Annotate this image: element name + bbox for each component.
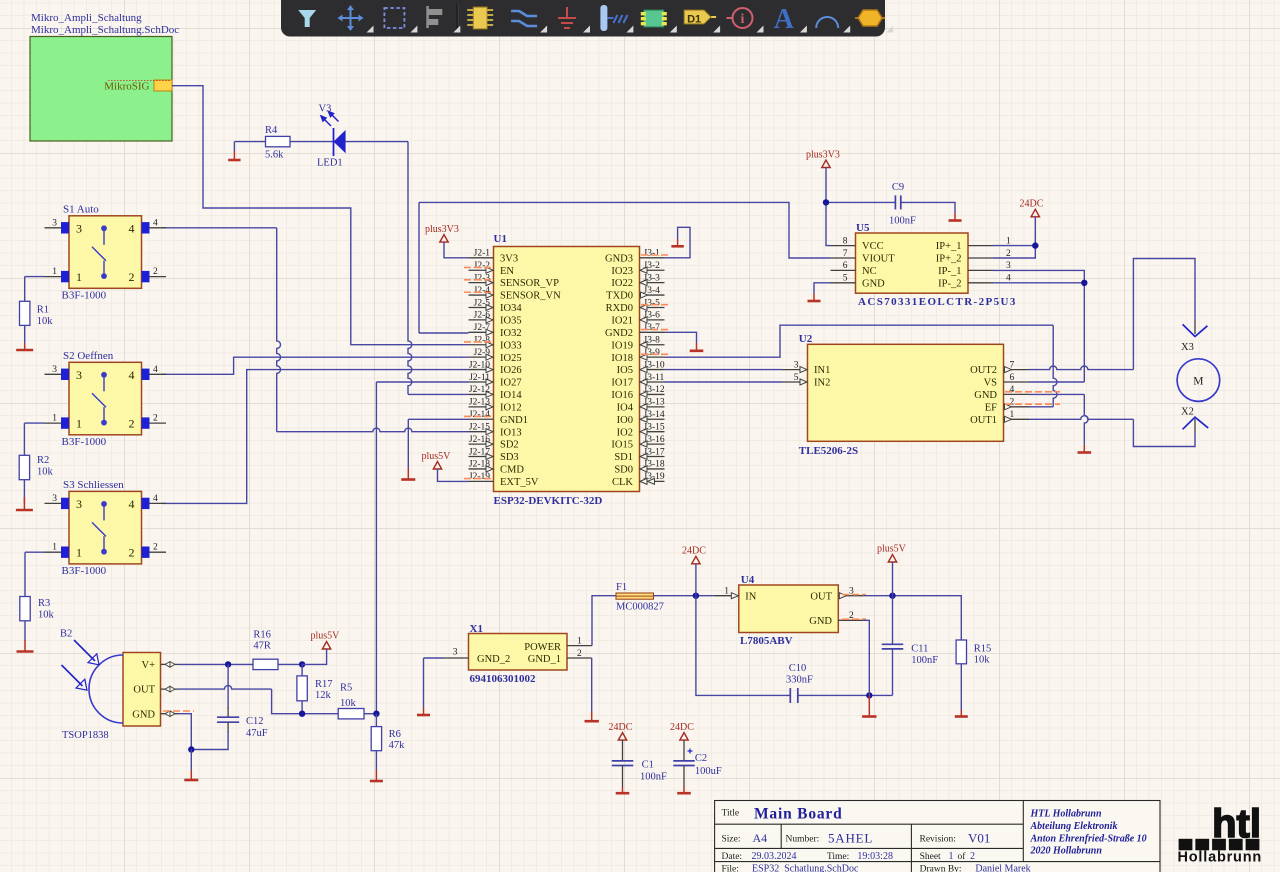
pin J3-1 GND3 bbox=[640, 257, 665, 259]
svg-text:V01: V01 bbox=[968, 831, 990, 846]
svg-text:24DC: 24DC bbox=[1020, 199, 1044, 210]
svg-text:TSOP1838: TSOP1838 bbox=[62, 730, 109, 741]
svg-text:2: 2 bbox=[129, 417, 135, 431]
pin U5-7 VIOUT bbox=[831, 257, 856, 259]
svg-text:J2-13: J2-13 bbox=[469, 398, 490, 408]
wire MikroSIG to IO33 bbox=[172, 86, 469, 345]
svg-text:J3-12: J3-12 bbox=[644, 385, 665, 395]
node 24DC F1 bbox=[693, 593, 699, 599]
svg-text:6: 6 bbox=[843, 261, 848, 271]
wire OUT1 to X2 bbox=[1029, 416, 1133, 420]
wire GND3 to ground bbox=[665, 227, 691, 257]
svg-text:J3-16: J3-16 bbox=[644, 435, 665, 445]
wire X1 POWER to F1 bbox=[592, 596, 616, 646]
svg-text:plus5V: plus5V bbox=[311, 631, 341, 642]
svg-text:F1: F1 bbox=[616, 582, 627, 593]
svg-text:IN2: IN2 bbox=[814, 378, 830, 389]
svg-text:J2-19: J2-19 bbox=[469, 472, 490, 482]
pin J3-8 IO19 bbox=[640, 344, 665, 346]
wire U5 IP- to U2 VS bbox=[993, 270, 1084, 382]
svg-text:R15: R15 bbox=[974, 643, 992, 654]
svg-text:B3F-1000: B3F-1000 bbox=[62, 436, 107, 448]
pin J3-11 IO17 bbox=[640, 381, 665, 383]
IC U5 ACS70331 bbox=[856, 233, 969, 293]
pin J3-3 IO22 bbox=[640, 282, 665, 284]
ground GND1 bbox=[401, 478, 415, 481]
pin J2-17 SD3 bbox=[469, 456, 494, 458]
svg-text:4: 4 bbox=[153, 365, 158, 375]
svg-text:1: 1 bbox=[52, 414, 57, 424]
svg-text:10k: 10k bbox=[37, 316, 54, 327]
toolbar icon align bbox=[426, 6, 442, 28]
ground R6 bbox=[370, 780, 383, 783]
node TSOP GND bbox=[188, 746, 194, 752]
pin U4-1 IN bbox=[714, 595, 739, 597]
svg-text:Main Board: Main Board bbox=[754, 805, 843, 822]
pin U2-5 IN2 bbox=[783, 381, 808, 383]
pin U2-6 VS bbox=[1004, 381, 1030, 383]
svg-text:10k: 10k bbox=[974, 655, 991, 666]
pin J3-6 IO21 bbox=[640, 319, 665, 321]
svg-text:1: 1 bbox=[1006, 236, 1011, 246]
svg-text:24DC: 24DC bbox=[609, 722, 633, 733]
svg-text:1: 1 bbox=[52, 267, 57, 277]
ground R15 bbox=[955, 715, 968, 718]
svg-text:100uF: 100uF bbox=[695, 766, 722, 777]
pin U5-8 VCC bbox=[831, 245, 856, 247]
pin J3-16 IO15 bbox=[640, 443, 665, 445]
svg-text:3: 3 bbox=[794, 360, 799, 370]
svg-text:CLK: CLK bbox=[612, 477, 633, 488]
resistor R3 bbox=[20, 597, 30, 621]
svg-text:3: 3 bbox=[76, 221, 82, 235]
wire R15 to ground bbox=[960, 664, 962, 710]
svg-text:R2: R2 bbox=[37, 455, 49, 466]
svg-text:2: 2 bbox=[970, 851, 975, 862]
ground GND3 bbox=[671, 245, 683, 248]
pin U5-1 IP+_1 bbox=[968, 245, 993, 247]
wire U4 OUT to plus5V rail bbox=[863, 596, 961, 640]
wire R5 to R6/IO27 bbox=[364, 713, 376, 715]
toolbar separator bbox=[456, 4, 458, 33]
pin J2-19 EXT_5V bbox=[469, 480, 494, 482]
svg-text:J3-5: J3-5 bbox=[644, 298, 661, 308]
svg-text:IO18: IO18 bbox=[611, 353, 633, 364]
ground GND2 bbox=[690, 349, 704, 352]
svg-text:24DC: 24DC bbox=[670, 722, 694, 733]
resistor R16 47R bbox=[253, 659, 278, 669]
svg-text:GND3: GND3 bbox=[605, 253, 633, 264]
wire TSOP V+ to R16 bbox=[178, 663, 253, 665]
pin J3-15 IO2 bbox=[640, 431, 665, 433]
svg-text:plus3V3: plus3V3 bbox=[425, 224, 459, 235]
svg-text:J3-15: J3-15 bbox=[644, 422, 665, 432]
connector X2 bbox=[1183, 417, 1209, 429]
svg-text:5: 5 bbox=[794, 373, 799, 383]
pin J2-15 IO13 bbox=[469, 431, 494, 433]
svg-text:Number:: Number: bbox=[786, 834, 820, 844]
pin J2-16 SD2 bbox=[469, 443, 494, 445]
pin J2-2 EN bbox=[469, 269, 494, 271]
svg-text:IO5: IO5 bbox=[617, 365, 633, 376]
svg-text:IP-_2: IP-_2 bbox=[938, 278, 961, 289]
svg-text:GND: GND bbox=[974, 390, 997, 401]
svg-text:S3 Schliessen: S3 Schliessen bbox=[63, 479, 124, 491]
svg-text:File:: File: bbox=[722, 864, 739, 872]
svg-text:Size:: Size: bbox=[722, 834, 741, 844]
svg-text:J2-2: J2-2 bbox=[474, 261, 491, 271]
svg-text:SENSOR_VP: SENSOR_VP bbox=[500, 278, 559, 289]
pin U5-2 IP+_2 bbox=[968, 257, 993, 259]
toolbar icon filter bbox=[298, 10, 316, 27]
toolbar icon gnd bbox=[558, 7, 576, 28]
pin J2-11 IO27 bbox=[469, 381, 494, 383]
pin U2-7 OUT2 bbox=[1004, 369, 1030, 371]
svg-text:IO32: IO32 bbox=[500, 328, 522, 339]
svg-text:J2-6: J2-6 bbox=[474, 311, 491, 321]
pin U2-2 EF bbox=[1004, 406, 1030, 408]
svg-text:2: 2 bbox=[153, 414, 158, 424]
svg-text:plus5V: plus5V bbox=[422, 451, 452, 462]
svg-text:S1 Auto: S1 Auto bbox=[63, 203, 99, 215]
IC B2 TSOP1838 bbox=[123, 653, 161, 727]
wire R4 to LED1 bbox=[290, 141, 334, 143]
node R5/R6 bbox=[373, 711, 379, 717]
node plus3V3 bbox=[823, 199, 829, 205]
svg-text:10k: 10k bbox=[38, 610, 55, 621]
svg-text:4: 4 bbox=[1006, 274, 1011, 284]
svg-text:IO19: IO19 bbox=[611, 340, 633, 351]
wire S1 pin4 to IO13 bbox=[162, 227, 277, 229]
svg-text:GND_1: GND_1 bbox=[528, 654, 561, 665]
svg-text:GND1: GND1 bbox=[500, 415, 528, 426]
svg-text:D1: D1 bbox=[687, 14, 701, 26]
wire IO5 to U2 IN1 bbox=[665, 369, 783, 371]
toolbar icon arc bbox=[816, 17, 838, 28]
wire GND1 to ground bbox=[408, 418, 468, 420]
connector X3 bbox=[1183, 324, 1208, 336]
svg-text:R4: R4 bbox=[265, 125, 278, 136]
power 24DC U5 bbox=[1031, 209, 1039, 217]
wire IO32 to U5 VIOUT bbox=[419, 332, 469, 334]
svg-text:J2-10: J2-10 bbox=[469, 360, 490, 370]
svg-text:3: 3 bbox=[52, 218, 57, 228]
svg-text:GND: GND bbox=[862, 278, 885, 289]
svg-text:IO16: IO16 bbox=[611, 390, 633, 401]
svg-text:M: M bbox=[1193, 376, 1203, 388]
node OUT/R17 bbox=[299, 711, 305, 717]
svg-text:5: 5 bbox=[843, 274, 848, 284]
svg-text:HTL Hollabrunn: HTL Hollabrunn bbox=[1030, 809, 1102, 820]
power plus3V3 J2-1 bbox=[440, 235, 448, 243]
wire TSOP OUT to R5 bbox=[178, 686, 272, 690]
pin J2-4 SENSOR_VN bbox=[469, 294, 494, 296]
svg-text:OUT1: OUT1 bbox=[970, 415, 997, 426]
pin U5-6 NC bbox=[831, 269, 856, 271]
toolbar icon no-erc bbox=[727, 8, 753, 28]
svg-text:plus5V: plus5V bbox=[877, 544, 907, 555]
svg-text:J2-3: J2-3 bbox=[474, 273, 491, 283]
resistor R17 12k bbox=[301, 664, 303, 676]
svg-text:J3-18: J3-18 bbox=[644, 460, 665, 470]
pin J2-10 IO26 bbox=[469, 369, 494, 371]
wire R6 to ground bbox=[375, 751, 377, 770]
svg-text:4: 4 bbox=[129, 221, 135, 235]
pin TSOP V+ bbox=[161, 663, 179, 665]
pin U2-3 IN1 bbox=[783, 369, 808, 371]
wire C10 to GND node bbox=[798, 694, 893, 696]
pin J2-8 IO33 bbox=[469, 344, 494, 346]
svg-text:100nF: 100nF bbox=[889, 216, 916, 227]
ground C2 bbox=[677, 792, 691, 795]
pin U4-2 GND bbox=[838, 619, 863, 621]
svg-text:B3F-1000: B3F-1000 bbox=[62, 289, 107, 301]
wire U4 GND down bbox=[863, 620, 869, 695]
svg-text:GND2: GND2 bbox=[605, 328, 633, 339]
svg-text:S2 Oeffnen: S2 Oeffnen bbox=[63, 350, 114, 362]
svg-text:SD3: SD3 bbox=[500, 452, 519, 463]
svg-text:IN1: IN1 bbox=[814, 365, 830, 376]
toolbar icon sheet part bbox=[641, 10, 667, 27]
svg-text:J3-19: J3-19 bbox=[644, 472, 665, 482]
svg-text:IO22: IO22 bbox=[611, 278, 633, 289]
wire S3 pin4 to IO26 bbox=[162, 370, 469, 504]
ground U2 bbox=[1078, 451, 1092, 454]
svg-text:OUT2: OUT2 bbox=[970, 365, 997, 376]
svg-text:TLE5206-2S: TLE5206-2S bbox=[799, 445, 858, 457]
connector X1 694106301002 bbox=[469, 634, 568, 671]
svg-text:12k: 12k bbox=[315, 690, 332, 701]
svg-text:2: 2 bbox=[1010, 398, 1015, 408]
svg-text:J3-3: J3-3 bbox=[644, 273, 661, 283]
svg-text:IO14: IO14 bbox=[500, 390, 522, 401]
power 24DC C2 bbox=[680, 733, 688, 741]
svg-text:Drawn By:: Drawn By: bbox=[920, 864, 962, 872]
svg-text:Revision:: Revision: bbox=[920, 834, 956, 844]
svg-text:Sheet: Sheet bbox=[920, 852, 941, 862]
svg-text:V+: V+ bbox=[141, 660, 155, 671]
svg-text:CMD: CMD bbox=[500, 465, 524, 476]
svg-text:1: 1 bbox=[52, 543, 57, 553]
wire IO27 to R5/R6 bbox=[376, 381, 468, 383]
svg-text:10k: 10k bbox=[37, 467, 54, 478]
ground C9 bbox=[949, 219, 962, 222]
wire C12 branch bbox=[227, 664, 229, 708]
resistor R2 bbox=[19, 455, 29, 479]
svg-text:U4: U4 bbox=[741, 574, 755, 586]
wire R1 to ground bbox=[24, 325, 26, 343]
svg-text:J2-8: J2-8 bbox=[474, 336, 491, 346]
wire OUT2 to X3 bbox=[1029, 366, 1133, 370]
svg-text:1: 1 bbox=[724, 587, 729, 597]
resistor R15 bbox=[956, 640, 966, 664]
wire U2 GND to ground bbox=[1029, 393, 1084, 395]
svg-text:5.6k: 5.6k bbox=[265, 150, 284, 161]
svg-text:A: A bbox=[774, 4, 795, 35]
switch S2 B3F-1000 bbox=[69, 362, 142, 435]
pin J3-18 SD0 bbox=[640, 468, 665, 470]
ground R3 bbox=[24, 640, 26, 652]
svg-text:3: 3 bbox=[76, 497, 82, 511]
svg-text:330nF: 330nF bbox=[786, 675, 813, 686]
power 24DC F1 bbox=[692, 556, 700, 564]
pin TSOP OUT bbox=[161, 688, 179, 690]
svg-text:29.03.2024: 29.03.2024 bbox=[752, 851, 797, 862]
svg-text:GND: GND bbox=[132, 709, 155, 720]
svg-text:4: 4 bbox=[153, 218, 158, 228]
svg-text:U5: U5 bbox=[856, 222, 870, 234]
motor M bbox=[1177, 359, 1220, 402]
ground X1 GND_1 bbox=[585, 720, 599, 723]
svg-text:SD2: SD2 bbox=[500, 440, 519, 451]
power plus5V R16 bbox=[322, 642, 330, 650]
ground X1 GND_2 bbox=[417, 714, 430, 717]
pin J2-1 3V3 bbox=[469, 257, 494, 259]
svg-text:3: 3 bbox=[76, 368, 82, 382]
svg-text:LED1: LED1 bbox=[317, 158, 343, 169]
node plus5V bbox=[889, 593, 895, 599]
svg-text:IO26: IO26 bbox=[500, 365, 522, 376]
pin J3-5 RXD0 bbox=[640, 306, 665, 308]
svg-text:IP-_1: IP-_1 bbox=[938, 266, 961, 277]
node R16/R17 bbox=[299, 661, 305, 667]
svg-text:Hollabrunn: Hollabrunn bbox=[1178, 850, 1263, 866]
svg-text:R6: R6 bbox=[389, 729, 401, 740]
svg-text:OUT: OUT bbox=[133, 685, 155, 696]
power plus3V3 U5 bbox=[822, 160, 830, 168]
svg-text:IO35: IO35 bbox=[500, 316, 522, 327]
svg-text:IO17: IO17 bbox=[611, 378, 633, 389]
svg-text:R5: R5 bbox=[340, 683, 352, 694]
svg-text:V3: V3 bbox=[319, 104, 332, 115]
svg-text:C2: C2 bbox=[695, 753, 707, 764]
svg-text:R3: R3 bbox=[38, 598, 50, 609]
ground U4 bbox=[862, 715, 876, 718]
power plus5V EXT_5V bbox=[433, 462, 441, 470]
pin U2-4 GND bbox=[1004, 393, 1030, 395]
svg-text:IO27: IO27 bbox=[500, 378, 522, 389]
pin J3-9 IO18 bbox=[640, 356, 665, 358]
svg-text:J2-9: J2-9 bbox=[474, 348, 491, 358]
svg-text:R17: R17 bbox=[315, 679, 333, 690]
pin U2-1 OUT1 bbox=[1004, 418, 1030, 420]
svg-text:J2-17: J2-17 bbox=[469, 447, 490, 457]
svg-text:J3-8: J3-8 bbox=[644, 336, 661, 346]
node V+ bbox=[225, 661, 231, 667]
svg-text:J2-16: J2-16 bbox=[469, 435, 490, 445]
wire plus3V3 to C9 and VCC bbox=[826, 201, 895, 203]
wire U5 IP+ pins bbox=[993, 245, 1035, 247]
toolbar icon part bbox=[467, 7, 493, 29]
pin U5-4 IP-_2 bbox=[968, 282, 993, 284]
svg-text:VCC: VCC bbox=[862, 241, 884, 252]
svg-text:C10: C10 bbox=[789, 663, 807, 674]
svg-text:i: i bbox=[741, 12, 745, 27]
pin J2-3 SENSOR_VP bbox=[469, 282, 494, 284]
svg-text:J2-15: J2-15 bbox=[469, 422, 490, 432]
title block bbox=[715, 801, 1160, 872]
svg-text:3: 3 bbox=[453, 648, 458, 658]
svg-text:J2-1: J2-1 bbox=[474, 249, 491, 259]
capacitor C10 330nF bbox=[789, 688, 791, 703]
pin J3-4 TXD0 bbox=[640, 294, 665, 296]
svg-text:Date:: Date: bbox=[722, 852, 743, 862]
svg-text:19:03:28: 19:03:28 bbox=[857, 851, 893, 862]
svg-text:VIOUT: VIOUT bbox=[862, 254, 895, 265]
svg-text:47R: 47R bbox=[253, 641, 271, 652]
svg-text:IO13: IO13 bbox=[500, 427, 522, 438]
svg-text:J3-6: J3-6 bbox=[644, 311, 661, 321]
IC U1 ESP32-DEVKITC-32D bbox=[494, 247, 640, 492]
switch S3 B3F-1000 bbox=[69, 491, 142, 564]
wire U5 GND to ground bbox=[814, 283, 831, 294]
capacitor C12 47uF bbox=[227, 707, 229, 717]
toolbar icon probe bbox=[600, 5, 627, 31]
wire R16 to plus5V node bbox=[278, 663, 302, 665]
svg-text:47k: 47k bbox=[389, 740, 406, 751]
svg-text:J3-13: J3-13 bbox=[644, 398, 665, 408]
pin U5-3 IP-_1 bbox=[968, 269, 993, 271]
svg-text:Mikro_Ampli_Schaltung.SchDoc: Mikro_Ampli_Schaltung.SchDoc bbox=[31, 24, 179, 36]
svg-text:4: 4 bbox=[129, 368, 135, 382]
svg-text:2: 2 bbox=[1006, 249, 1011, 259]
svg-text:1: 1 bbox=[949, 851, 954, 862]
svg-text:MikroSIG: MikroSIG bbox=[104, 81, 149, 93]
svg-text:GND_2: GND_2 bbox=[477, 654, 510, 665]
toolbar icon polygon bbox=[858, 10, 882, 26]
wire ground to R4 bbox=[234, 141, 265, 143]
pin J2-12 IO14 bbox=[469, 393, 494, 395]
svg-text:OUT: OUT bbox=[810, 591, 832, 602]
pin J3-14 IO0 bbox=[640, 418, 665, 420]
svg-text:C11: C11 bbox=[911, 643, 928, 654]
svg-text:IO34: IO34 bbox=[500, 303, 522, 314]
IC U2 TLE5206-2S bbox=[808, 344, 1004, 441]
svg-text:47uF: 47uF bbox=[246, 728, 268, 739]
pin U4-3 OUT bbox=[838, 595, 863, 597]
wire GND2 to ground bbox=[665, 332, 697, 343]
svg-text:U2: U2 bbox=[799, 333, 813, 345]
svg-text:1: 1 bbox=[76, 270, 82, 284]
pin J2-5 IO34 bbox=[469, 306, 494, 308]
wire TSOP GND bbox=[178, 714, 191, 750]
svg-text:J3-17: J3-17 bbox=[644, 447, 665, 457]
ground U5 bbox=[808, 300, 821, 303]
svg-text:NC: NC bbox=[862, 266, 877, 277]
svg-text:SD0: SD0 bbox=[614, 465, 633, 476]
svg-text:1: 1 bbox=[76, 417, 82, 431]
svg-text:GND: GND bbox=[809, 616, 832, 627]
pin J2-9 IO25 bbox=[469, 356, 494, 358]
svg-text:J3-14: J3-14 bbox=[644, 410, 665, 420]
ground R2 bbox=[23, 497, 25, 510]
pin J3-17 SD1 bbox=[640, 456, 665, 458]
svg-text:1: 1 bbox=[577, 636, 582, 646]
svg-text:2: 2 bbox=[129, 270, 135, 284]
svg-text:RXD0: RXD0 bbox=[606, 303, 633, 314]
ground R4 bbox=[228, 159, 240, 162]
toolbar icon move bbox=[338, 5, 364, 31]
wire S2 pin4 to IO25 bbox=[162, 357, 469, 374]
toolbar icon select bbox=[384, 8, 404, 28]
svg-text:A4: A4 bbox=[753, 831, 768, 845]
svg-text:2: 2 bbox=[153, 543, 158, 553]
svg-text:J2-18: J2-18 bbox=[469, 460, 490, 470]
svg-text:J2-4: J2-4 bbox=[474, 286, 491, 296]
svg-text:4: 4 bbox=[1010, 385, 1015, 395]
svg-text:U1: U1 bbox=[494, 233, 507, 245]
capacitor C1 100nF bbox=[612, 760, 634, 762]
